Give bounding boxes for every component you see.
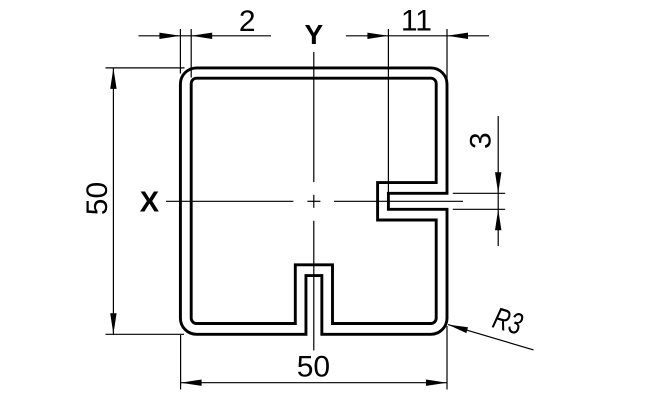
svg-text:2: 2	[239, 5, 256, 38]
inner cavity contour with screw bosses	[191, 78, 436, 323]
dimension 50 left arrows	[110, 68, 116, 89]
svg-text:50: 50	[81, 182, 114, 215]
dimension 3 arrows	[495, 172, 501, 193]
dimension 50 left dimension line	[112, 68, 114, 334]
X centerline (horizontal axis dashes)	[166, 200, 463, 202]
dimension 3 (slot width) extension lines	[453, 193, 505, 209]
dimension 50 bottom extension lines	[181, 326, 447, 390]
dimension 50 bottom dimension line	[181, 382, 447, 384]
dimension 3 dimension line	[497, 116, 499, 246]
dimension 11 arrows	[367, 33, 388, 39]
svg-text:50: 50	[297, 351, 330, 384]
outer profile contour (50x50 tube, R3 corners, slot openings)	[180, 68, 447, 334]
svg-text:3: 3	[464, 132, 497, 149]
svg-text:11: 11	[401, 5, 432, 38]
dimension 11 (slot depth) extension lines	[388, 29, 447, 193]
dimension 50 bottom arrows	[181, 380, 202, 386]
dimension 2 (wall thickness) extension lines	[180, 29, 191, 78]
Y centerline (vertical axis dashes)	[313, 52, 315, 350]
dimension 2 dimension line	[139, 35, 272, 37]
dimension 2 arrows	[159, 33, 180, 39]
dimension 11 dimension line	[346, 35, 489, 37]
R3 leader arrow	[448, 325, 468, 334]
dimension 50 left extension lines	[106, 68, 185, 334]
R3 leader line	[448, 325, 534, 350]
svg-text:Y: Y	[305, 19, 324, 50]
svg-text:X: X	[140, 187, 160, 219]
